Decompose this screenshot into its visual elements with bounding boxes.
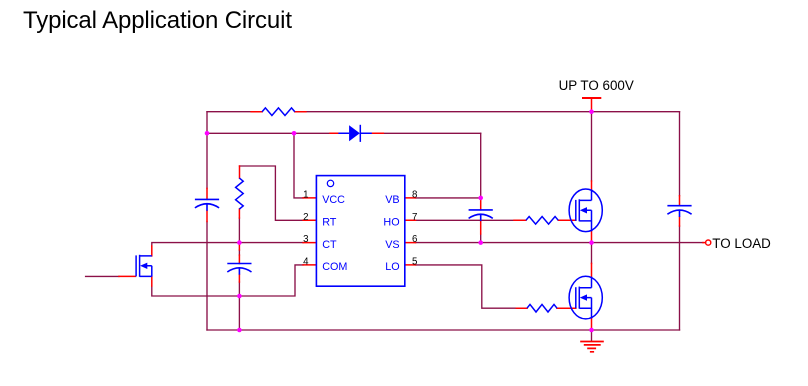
svg-text:HO: HO	[383, 217, 399, 229]
svg-text:UP TO 600V: UP TO 600V	[559, 78, 634, 93]
svg-text:5: 5	[412, 256, 417, 267]
svg-text:3: 3	[303, 234, 308, 245]
svg-text:RT: RT	[322, 217, 337, 229]
svg-text:2: 2	[303, 212, 308, 223]
svg-text:TO LOAD: TO LOAD	[712, 236, 771, 251]
svg-text:VCC: VCC	[322, 194, 345, 206]
svg-text:VS: VS	[385, 239, 399, 251]
svg-text:1: 1	[303, 189, 308, 200]
svg-text:VB: VB	[385, 194, 399, 206]
svg-text:CT: CT	[322, 239, 337, 251]
svg-text:4: 4	[303, 256, 309, 267]
svg-text:8: 8	[412, 189, 417, 200]
svg-text:6: 6	[412, 234, 417, 245]
svg-text:LO: LO	[385, 261, 399, 273]
svg-text:7: 7	[412, 212, 417, 223]
svg-text:Typical Application Circuit: Typical Application Circuit	[23, 7, 292, 34]
svg-text:COM: COM	[322, 261, 347, 273]
